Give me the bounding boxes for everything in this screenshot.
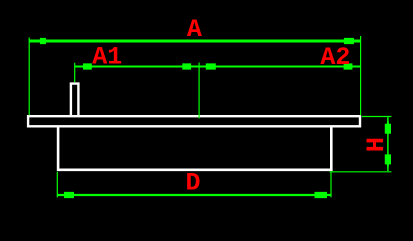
arrowhead H bottom xyxy=(385,154,391,171)
dimension line D xyxy=(58,194,332,196)
pin outline xyxy=(71,84,79,117)
extension line A left xyxy=(28,38,30,116)
arrowhead A right xyxy=(344,38,361,44)
dimension line A xyxy=(29,40,360,43)
arrowhead A left xyxy=(29,38,46,44)
extension line H top xyxy=(362,116,392,118)
arrowhead A2 left xyxy=(199,63,216,69)
svg-text:A1: A1 xyxy=(92,42,122,71)
arrowhead D left xyxy=(58,192,75,198)
dimension line A1 xyxy=(75,66,199,68)
extension line D right xyxy=(330,172,332,198)
extension line H bottom xyxy=(330,171,392,173)
extension line A right xyxy=(360,36,362,115)
body outline xyxy=(58,126,331,170)
arrowhead D right xyxy=(315,192,332,198)
dimension line A2 xyxy=(199,66,361,68)
svg-text:A2: A2 xyxy=(320,43,350,72)
svg-text:D: D xyxy=(185,169,200,198)
extension line A1/A2 middle xyxy=(198,63,200,119)
svg-text:A: A xyxy=(187,15,202,44)
flange plate outline xyxy=(28,116,360,126)
extension line D left xyxy=(56,172,58,198)
arrowhead A1 right xyxy=(182,63,199,69)
extension line A1 left (pin center) xyxy=(74,63,76,83)
arrowhead A2 right xyxy=(344,63,361,69)
arrowhead H top xyxy=(385,117,391,134)
arrowhead A1 left xyxy=(75,63,92,69)
dimension line H xyxy=(387,117,389,171)
svg-text:H: H xyxy=(362,137,391,152)
